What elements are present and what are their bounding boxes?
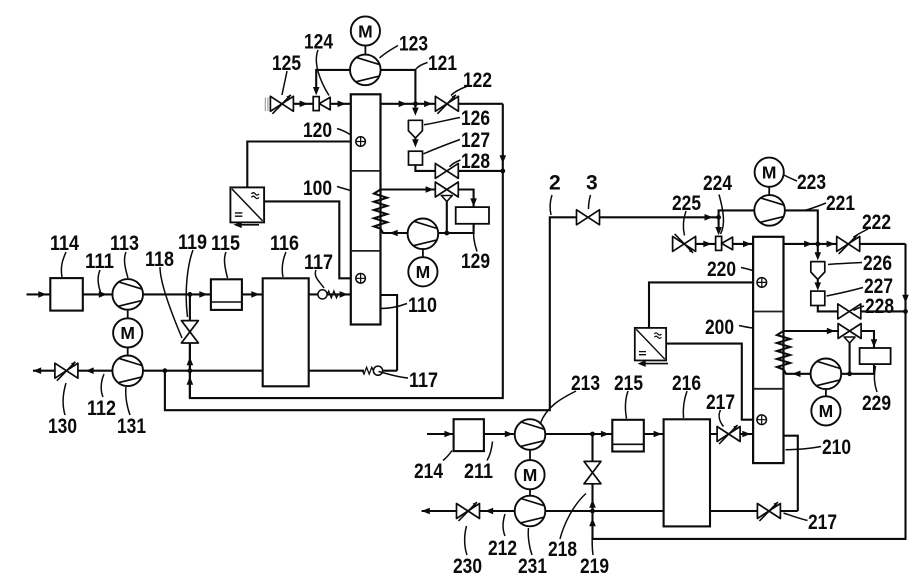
svg-text:116: 116 (270, 232, 299, 255)
svg-text:100: 100 (303, 177, 332, 200)
pump 221 (754, 195, 785, 226)
leader 113 (125, 252, 128, 278)
arrow into box 229 (871, 339, 878, 347)
svg-text:127: 127 (461, 129, 490, 152)
leader 130 (63, 383, 66, 415)
leader 225 (683, 211, 686, 236)
arrow coil top line right (827, 328, 835, 335)
valve 222 (837, 235, 860, 254)
leader 118 (160, 267, 182, 338)
svg-text:216: 216 (672, 372, 701, 395)
leader 230 (465, 526, 467, 555)
AC/DC converter left (230, 187, 264, 222)
wire square 227 to valve 228 (818, 306, 838, 312)
svg-text:124: 124 (304, 31, 333, 54)
motor M 123 drive (364, 46, 366, 55)
leader 221 (804, 203, 826, 211)
motor M below coil pump right (825, 389, 827, 396)
leader 117 lower (379, 372, 409, 379)
svg-text:210: 210 (822, 436, 851, 459)
leader 200 (739, 326, 753, 329)
svg-text:214: 214 (414, 460, 443, 483)
column 120/100/110 (351, 94, 381, 324)
motor M below coil pump left (422, 249, 424, 257)
svg-text:213: 213 (571, 372, 600, 395)
arrows valve118 bypass (187, 357, 194, 365)
leader 231 (528, 528, 532, 555)
pump 231 (515, 496, 546, 527)
arrows funnel line left (412, 108, 419, 116)
leader 227 (827, 288, 864, 297)
svg-text:129: 129 (461, 250, 490, 273)
wire valve 228 to recycle vertical (861, 310, 906, 312)
wire box116 to pump131 (143, 370, 263, 372)
leader 128 (450, 160, 461, 167)
coil circulation pump right (811, 359, 842, 390)
svg-text:112: 112 (87, 397, 116, 420)
box 215 (612, 420, 644, 452)
svg-text:221: 221 (826, 192, 855, 215)
arrow recycle vertical right (902, 295, 909, 303)
leader 223 (783, 175, 797, 182)
wire column 210 bottom pocket (784, 436, 798, 511)
wire pump113 to box115 (143, 293, 211, 295)
arrows left main line (38, 291, 46, 298)
wire feed-out right (422, 510, 457, 512)
wire three-way valve lower branch to pump line right (849, 343, 851, 374)
wire box116 to column 110 through restrictor 117 (309, 293, 351, 295)
heater coil 200 (777, 331, 811, 374)
leader 119 (186, 250, 193, 317)
leader 226 (828, 263, 862, 265)
arrows funnel line right (815, 252, 822, 260)
leader 114 (61, 252, 66, 277)
wire converter output right to sensor2 (666, 344, 753, 420)
valve 228 (838, 304, 861, 319)
leader 216 (683, 391, 687, 418)
wire valve118 bypass lower segment (189, 343, 191, 398)
valve 118 (181, 321, 198, 343)
wire square 127 to valve 128 (415, 165, 435, 171)
arrow coil top line left (426, 186, 434, 193)
leader 217 lower (784, 513, 808, 521)
svg-text:226: 226 (863, 252, 892, 275)
valve 128 (435, 163, 458, 178)
restrictor 117 upper (318, 290, 338, 299)
valve 130 (55, 362, 78, 381)
arrows right bottom line (444, 431, 452, 438)
motor M 223 drive (768, 187, 770, 195)
leader 219 (591, 531, 594, 556)
leader 117 upper (315, 270, 324, 288)
valve 218 (584, 461, 601, 483)
wire pump231 to valve230 (479, 510, 514, 512)
svg-text:219: 219 (580, 555, 609, 578)
wire box115 to box116 (242, 293, 263, 295)
three-way valve left (435, 182, 458, 202)
sensor port lower right column (757, 415, 767, 425)
arrow pump131 discharge (86, 367, 94, 374)
wire box216 to valve217a to column 210 (710, 433, 753, 435)
leader 124 (316, 50, 329, 96)
leader 121 (416, 63, 428, 70)
leader 131 (126, 387, 130, 415)
leader 125 (282, 71, 287, 95)
arrow feed-out right (422, 508, 430, 515)
arrow into box 129 (470, 198, 477, 206)
wire pump to box 229 drop (841, 364, 874, 374)
leader 210 (786, 447, 822, 450)
wire feed-in (27, 293, 51, 295)
leader 122 (451, 86, 469, 96)
wire coil top line to three-way valve right (784, 330, 839, 332)
sensor port upper right column (757, 278, 767, 288)
svg-text:120: 120 (303, 119, 332, 142)
valve 217 upper (717, 425, 740, 444)
box 129 (456, 207, 489, 224)
wire coil top line to three-way valve (381, 188, 436, 190)
wire signal sensor1 to converter (247, 142, 350, 188)
sensor port upper left column (356, 137, 366, 147)
svg-text:231: 231 (518, 555, 547, 578)
leader 110 (381, 304, 407, 309)
wire box215 to box216 (644, 433, 664, 435)
svg-text:115: 115 (211, 232, 240, 255)
wire valve225 to valve224 to column 220 (696, 243, 753, 245)
coil circulation pump left (408, 219, 439, 250)
wire column bottom pocket (381, 295, 398, 371)
leader 229 (874, 366, 877, 392)
wire feed-out (33, 370, 55, 372)
arrows right main line (703, 241, 711, 248)
leader 100 (337, 187, 351, 191)
wire recycle vertical right and bottom return to valve 218 branch (593, 244, 906, 539)
wire 121 pump123 right branch down to junction (381, 70, 416, 104)
motor M for pumps 113/131 (127, 310, 129, 356)
wire junction down to funnel 226 (817, 244, 819, 253)
wire pump to box 129 drop (438, 224, 473, 233)
arrow feed-out left (33, 367, 41, 374)
leader 213 (541, 391, 577, 423)
wire pump131 to valve130 (79, 370, 113, 372)
box 114 (50, 278, 83, 311)
svg-text:113: 113 (110, 232, 139, 255)
svg-text:121: 121 (428, 52, 457, 75)
wire top main line valves 125-124 to column 120 (270, 103, 350, 105)
leader 115 (224, 252, 227, 278)
arrows left top line (300, 101, 308, 108)
wire inter-system line 2 (165, 217, 577, 410)
svg-text:126: 126 (461, 107, 490, 130)
valve 3 (577, 210, 600, 225)
wire 221 pump right branch down to junction (785, 210, 818, 244)
box 216 (664, 419, 710, 526)
arrow into valve 224 (715, 227, 722, 235)
valve 124 (313, 97, 330, 111)
leader 212 (503, 514, 505, 536)
funnel 226 (811, 262, 825, 280)
funnel 126 (408, 120, 422, 138)
svg-text:130: 130 (48, 415, 77, 438)
arrow coil feed right (792, 371, 800, 378)
pump 113 (112, 279, 143, 310)
leader 228 (854, 306, 865, 311)
svg-text:118: 118 (145, 248, 174, 271)
svg-text:228: 228 (865, 295, 894, 318)
valve 224 (716, 236, 733, 250)
wire box129 top to three-way valve (457, 190, 474, 208)
svg-text:123: 123 (399, 33, 428, 56)
svg-text:211: 211 (464, 460, 493, 483)
leader 112 (101, 374, 104, 397)
wire funnel 226 to square 227 (817, 279, 819, 284)
svg-text:217: 217 (808, 511, 837, 534)
leader 3 (589, 195, 591, 209)
junction nodes (188, 292, 193, 297)
svg-text:117: 117 (304, 251, 333, 274)
svg-text:218: 218 (548, 538, 577, 561)
svg-text:220: 220 (707, 258, 736, 281)
svg-text:128: 128 (461, 150, 490, 173)
valve 217 lower (757, 502, 780, 521)
svg-text:122: 122 (463, 69, 492, 92)
wire converter output to sensor2 (264, 201, 351, 278)
svg-text:2: 2 (549, 172, 561, 195)
square 227 (811, 291, 825, 305)
wire return line through restrictor 117b to box116 (309, 370, 397, 372)
wire box216 to pump231 (545, 510, 663, 512)
leader 2 (550, 195, 552, 215)
leader 220 (741, 268, 753, 271)
wire box229 top to three-way valve (860, 331, 874, 348)
wire three-way valve lower branch to pump line (446, 201, 448, 233)
svg-text:224: 224 (703, 172, 732, 195)
svg-text:215: 215 (614, 372, 643, 395)
wire funnel 126 to square 127 (414, 138, 416, 141)
heater coil 100 (374, 190, 408, 234)
arrow on line 3 (705, 214, 713, 221)
svg-text:230: 230 (453, 555, 482, 578)
leader 123 (380, 46, 399, 59)
leader 129 (473, 226, 477, 252)
sensor port lower left column (356, 274, 366, 284)
svg-text:114: 114 (50, 232, 79, 255)
arrow recycle vertical left (500, 155, 507, 163)
wire pump213 to box215 (545, 433, 612, 435)
leader 127 (424, 140, 461, 154)
leader 215 (625, 391, 628, 419)
leader 222 (854, 229, 868, 237)
arrows valve218 bypass (589, 500, 596, 508)
wire pump221 left branch down to valve 224 (719, 210, 755, 229)
wire signal sensor1 right to converter (649, 282, 753, 328)
valve 122 (435, 95, 458, 114)
svg-text:222: 222 (862, 211, 891, 234)
svg-text:117: 117 (409, 369, 438, 392)
wire junction down to funnel 126 (414, 104, 416, 111)
arrow pump231 discharge (485, 508, 493, 515)
box 116 (263, 278, 309, 386)
restrictor 117 lower (362, 366, 382, 375)
leader 218 (560, 494, 586, 540)
leader 211 (487, 442, 493, 461)
svg-text:3: 3 (586, 172, 598, 195)
wire box214 to pump213 (484, 433, 515, 435)
column 220/200/210 (753, 237, 783, 463)
pipe end tick left of valve 125 (265, 98, 268, 112)
svg-text:217: 217 (706, 391, 735, 414)
square 127 (409, 151, 423, 165)
valve 230 (457, 502, 480, 521)
leader 126 (424, 118, 460, 125)
valve 125 (270, 95, 293, 114)
leader 111 (98, 270, 100, 292)
wire column 220 to valve 222 to recycle corner (784, 243, 837, 245)
wire valve 3 to tee (599, 216, 718, 218)
box 214 (454, 419, 484, 451)
wire column 120 to valve 122 to recycle corner (381, 103, 503, 105)
motor M for pumps 213/231 (529, 450, 531, 496)
arrow coil feed left (390, 230, 398, 237)
svg-text:125: 125 (272, 52, 301, 75)
box 115 (211, 279, 242, 310)
pump 131 (112, 356, 143, 387)
leader 116 (282, 252, 286, 277)
wire valve 128 to recycle vertical (458, 170, 503, 172)
svg-text:119: 119 (178, 231, 207, 254)
three-way valve right (838, 324, 861, 344)
svg-text:229: 229 (862, 392, 891, 415)
pump 123 (350, 55, 381, 86)
wire return through valve 217b to box216 (710, 510, 798, 512)
leader 217 upper (719, 410, 723, 427)
svg-text:131: 131 (117, 415, 146, 438)
arrow into valve 124 (313, 87, 320, 95)
wire feed-in right (427, 433, 454, 435)
wire 111 box114 to pump113 (83, 293, 113, 295)
pump 213 (515, 419, 546, 450)
leader 224 (719, 195, 724, 235)
svg-text:225: 225 (672, 192, 701, 215)
wire pump123 left branch down to valve 124 (316, 70, 350, 89)
svg-text:223: 223 (797, 171, 826, 194)
svg-text:200: 200 (705, 316, 734, 339)
svg-text:212: 212 (488, 537, 517, 560)
AC/DC converter right (635, 328, 666, 361)
leader 214 (443, 451, 452, 461)
valve 225 (673, 234, 696, 253)
wire recycle vertical and bottom return to valve 118 branch (190, 104, 503, 398)
svg-text:110: 110 (408, 294, 437, 317)
box 229 (860, 348, 891, 364)
leader 120 (337, 129, 351, 135)
